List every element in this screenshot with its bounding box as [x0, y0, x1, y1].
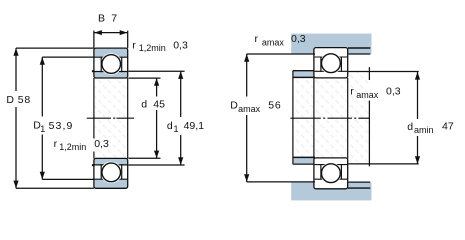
housing block bottom (blue): [291, 183, 371, 201]
r_amax vertical extension: [368, 67, 370, 80]
inner ring top band inner edge: [95, 71, 128, 73]
damin extension line top: [348, 71, 418, 73]
shaft shoulder bottom line: [293, 163, 314, 165]
svg-text:45: 45: [153, 98, 165, 110]
inner ring bottom band inner edge (right): [315, 164, 348, 166]
svg-text:58: 58: [18, 94, 31, 106]
shaft shoulder top line: [293, 70, 314, 72]
outer ring bottom band inner edge: [95, 178, 128, 180]
ball (bottom): [102, 163, 121, 182]
svg-text:D: D: [6, 94, 14, 106]
damin dimension line: [417, 72, 419, 119]
centerline (left view): [87, 117, 111, 119]
bearing top section (right view): [314, 48, 348, 78]
svg-text:0,3: 0,3: [291, 33, 306, 45]
housing bore line right (bottom): [348, 187, 370, 189]
shaft seat line (bottom): [293, 156, 315, 158]
bottom section outline (right): [314, 158, 348, 189]
bore side edges (right view): [313, 78, 315, 158]
hatch right shaft region: [294, 72, 369, 165]
svg-text:B: B: [98, 13, 105, 25]
Damax dimension line: [246, 54, 248, 97]
svg-text:r: r: [132, 40, 136, 52]
svg-text:53,9: 53,9: [49, 120, 74, 132]
bearing bottom section (right view): [314, 158, 348, 189]
housing shoulder line (bottom right): [348, 181, 370, 183]
svg-text:amax: amax: [356, 90, 379, 100]
bore side edges (left edge broken for 0,3 label): [93, 78, 95, 139]
svg-text:56: 56: [268, 99, 281, 111]
inner ring top band inner edge (right): [315, 70, 348, 72]
housing shoulder line (top right): [348, 53, 370, 55]
top section outline: [94, 48, 128, 78]
land edge verticals (top section): [100, 57, 102, 72]
svg-text:1,2min: 1,2min: [139, 43, 166, 53]
svg-text:amax: amax: [262, 37, 285, 47]
svg-text:amax: amax: [238, 104, 261, 114]
dimension D1 line: [41, 57, 43, 116]
svg-text:d: d: [167, 120, 173, 132]
dimension B line: [94, 32, 127, 34]
ball groove cutter (right bottom): [320, 162, 342, 184]
dimension d1 line: [180, 71, 182, 117]
inner ring bottom band inner edge: [95, 164, 128, 166]
hatch left bore: [95, 79, 128, 158]
dimension B extension lines: [93, 31, 95, 48]
housing bore line right (top): [348, 47, 370, 49]
dimension d line: [156, 78, 158, 96]
damin extension line bottom: [348, 163, 418, 165]
svg-text:0,3: 0,3: [173, 39, 188, 51]
ball groove cutter (top): [100, 53, 122, 75]
svg-text:1: 1: [40, 124, 45, 134]
svg-text:amin: amin: [414, 125, 434, 135]
svg-text:r: r: [255, 33, 259, 45]
dimension d1 extension lines: [128, 70, 184, 72]
shaft shoulder strip (top left, blue): [293, 71, 314, 76]
shaft seat line (top): [293, 76, 315, 78]
outer ring top band inner edge (right): [315, 56, 348, 58]
ball groove cutter (bottom): [100, 162, 122, 184]
svg-text:49,1: 49,1: [184, 120, 205, 132]
svg-text:0,3: 0,3: [94, 138, 109, 150]
svg-text:d: d: [141, 98, 147, 110]
svg-text:1,2min: 1,2min: [59, 142, 86, 152]
svg-text:0,3: 0,3: [386, 86, 401, 98]
outer ring bottom band inner edge (right): [315, 178, 348, 180]
shaft shoulder strip (bottom left, blue): [293, 158, 314, 163]
dimension d extension lines: [128, 77, 160, 79]
inner ring bottom band (blue): [95, 159, 128, 165]
land edge verticals (right bottom): [320, 164, 322, 179]
dimension D1 extension lines: [42, 56, 94, 58]
dimension D extension lines: [16, 47, 94, 49]
svg-text:r: r: [350, 86, 354, 98]
land edge verticals (bottom section): [100, 164, 102, 179]
shaft end face vertical: [292, 71, 294, 164]
outer ring top band (blue): [95, 49, 128, 57]
ball (top): [102, 55, 121, 74]
svg-text:1: 1: [174, 124, 179, 134]
svg-text:7: 7: [111, 13, 117, 25]
ball groove cutter (right top): [320, 52, 342, 74]
inner ring top band (blue): [95, 72, 128, 78]
ball (right bottom): [322, 164, 341, 183]
housing block top (blue): [291, 34, 371, 54]
land edge verticals (right top): [320, 57, 322, 72]
svg-text:d: d: [407, 121, 413, 133]
svg-text:47: 47: [442, 121, 454, 133]
svg-text:r: r: [54, 138, 58, 150]
top section outline (right): [314, 48, 348, 78]
dimension D line: [15, 48, 17, 91]
centerline (right view): [290, 117, 321, 119]
outer ring bottom band (blue): [95, 179, 128, 187]
ball (right top): [322, 54, 341, 73]
outer ring top band inner edge: [95, 56, 128, 58]
ring gap stubs on left face: [92, 70, 94, 72]
Damax extension line top: [247, 53, 315, 55]
bottom section outline: [94, 158, 128, 188]
svg-text:D: D: [230, 99, 238, 111]
Damax extension line bottom: [247, 181, 315, 183]
